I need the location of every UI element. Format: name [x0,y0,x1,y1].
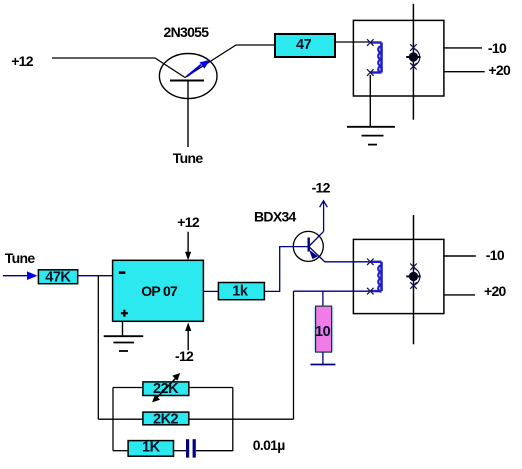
potentiometer wiper arrow (22K) [152,373,180,402]
svg-text:-12: -12 [312,179,331,195]
resistor 1K [128,440,173,457]
wire +12 to Q1 base [52,58,185,78]
coil L2 (bottom relay) [367,259,382,295]
svg-text:+20: +20 [484,283,507,299]
resistor 10 (pink) [314,306,332,352]
wire Tune input with blue arrow [3,271,38,280]
wire feedback vertical from input node [97,276,99,420]
rail bar below resistor 10 [311,364,336,366]
wire Q2 collector to -12 with arrow [320,201,328,232]
capacitor C1 0.01u [186,439,196,457]
wire 2K2 row right to coil corner [187,418,294,420]
svg-text:OP 07: OP 07 [141,283,178,299]
svg-text:+12: +12 [177,214,200,230]
+12 supply arrow into op-amp [177,214,200,260]
transistor Q2 BDX34 [293,231,325,262]
wire 1K row left [113,450,128,452]
lamp / meter symbol (bottom relay) [406,215,420,344]
wire stub to resistor 10 [322,291,324,306]
arrow on Q1 collector (blue) [187,60,210,77]
relay box (bottom) [353,239,444,313]
resistor 47 [275,34,335,57]
op-amp U1 OP 07 [113,260,204,321]
transistor Q1 2N3055 [159,54,217,148]
wire op-amp output to 1k [203,290,218,292]
wire Q2 emitter to relay coil [325,261,370,263]
svg-text:BDX34: BDX34 [254,208,297,224]
wire 47 to relay coil [335,41,369,43]
svg-text:+12: +12 [11,53,34,69]
wire Q1 collector to resistor 47 [185,45,275,78]
wire capacitor to loop [196,450,233,452]
wire coil to ground (top) [369,75,371,127]
svg-text:1k: 1k [232,283,249,299]
wire right loop vertical [232,388,234,452]
wire 1K to capacitor [174,450,187,452]
ground (top circuit) [347,127,395,145]
wire +20 (top) [444,71,485,73]
wire resistor 10 to rail [322,352,324,364]
svg-text:2K2: 2K2 [153,411,179,427]
svg-text:+20: +20 [488,62,511,78]
potentiometer 22K [143,381,189,397]
svg-text:-12: -12 [175,348,194,364]
wire 1k to Q2 base [264,247,308,292]
svg-text:1K: 1K [142,440,161,456]
wire left loop vertical [112,388,114,451]
svg-text:-10: -10 [486,247,505,263]
wire -10 (bottom) [444,255,476,257]
wire -10 (top) [444,47,482,49]
svg-text:10: 10 [315,324,331,340]
wire 22K row right [187,387,233,389]
wire coil bottom feed [294,290,370,292]
svg-text:47K: 47K [45,269,71,285]
resistor 1k [218,283,264,300]
relay box (top) [353,20,444,96]
svg-text:Tune: Tune [173,150,204,166]
svg-text:0.01µ: 0.01µ [253,437,285,453]
lamp / meter symbol (top relay) [406,4,420,120]
wire 2K2 row [98,418,143,420]
coil L1 (top relay) [367,39,382,76]
resistor 47K [38,269,77,285]
svg-text:2N3055: 2N3055 [164,24,210,40]
svg-text:47: 47 [296,37,312,53]
svg-text:-10: -10 [488,40,507,56]
svg-text:Tune: Tune [5,250,36,266]
-12 supply arrow into op-amp [175,323,194,365]
wire +20 (bottom) [444,294,475,296]
ground (op-amp + input) [104,321,144,351]
resistor 2K2 [143,411,189,427]
wire 47K to op-amp [78,275,113,277]
wire 22K row left [113,387,143,389]
wire corner vertical to feedback row [293,291,295,419]
